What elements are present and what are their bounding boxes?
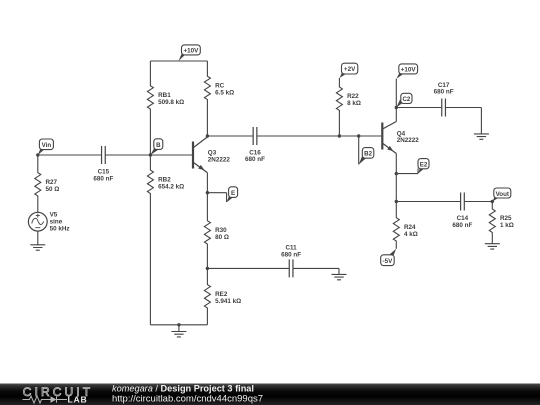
- wire E2 rail to C14: [396, 201, 460, 203]
- wire collector rail: [207, 135, 253, 137]
- capacitor C15: [102, 146, 106, 164]
- resistor RB1: [147, 61, 153, 155]
- node flag Vout: [492, 188, 511, 202]
- svg-text:C11: C11: [285, 245, 297, 252]
- svg-text:B2: B2: [364, 151, 372, 158]
- svg-text:2N2222: 2N2222: [397, 137, 420, 144]
- svg-text:680 nF: 680 nF: [93, 175, 113, 182]
- capacitor C11: [289, 259, 293, 277]
- ground below V5: [30, 245, 45, 250]
- power flag +10V right: [396, 64, 417, 79]
- wire C15 to Q3 base: [105, 154, 192, 156]
- node flag E2: [418, 159, 429, 174]
- capacitor C16: [253, 127, 257, 145]
- resistor R24: [393, 202, 399, 249]
- svg-text:V5: V5: [50, 212, 58, 219]
- svg-text:8 kΩ: 8 kΩ: [347, 100, 361, 107]
- svg-text:R30: R30: [215, 227, 227, 234]
- power flag +10V left: [179, 45, 201, 61]
- transistor Q3: [193, 137, 207, 173]
- ground right of C17: [474, 134, 489, 139]
- voltage source V5: [28, 212, 47, 231]
- svg-text:B: B: [156, 142, 161, 149]
- svg-text:Q3: Q3: [208, 149, 217, 156]
- svg-text:80 Ω: 80 Ω: [215, 234, 229, 241]
- resistor R30: [204, 193, 210, 269]
- wire C16 to Q4 base: [257, 135, 381, 137]
- svg-text:R25: R25: [500, 215, 512, 222]
- wire E2 stub: [396, 169, 418, 174]
- wire E stub: [207, 193, 226, 202]
- svg-text:E: E: [231, 190, 235, 197]
- power flag +2V: [339, 63, 357, 78]
- wire C17 to ground: [445, 108, 481, 134]
- ground below R25: [485, 244, 500, 249]
- ground bottom rail: [171, 325, 186, 337]
- logo waveform: [23, 396, 68, 403]
- svg-text:680 nF: 680 nF: [245, 156, 265, 163]
- svg-text:509.8 kΩ: 509.8 kΩ: [158, 99, 184, 106]
- wire C2 to C17: [396, 107, 441, 109]
- svg-text:RB1: RB1: [158, 92, 171, 99]
- svg-text:50 Ω: 50 Ω: [46, 186, 60, 193]
- svg-text:1 kΩ: 1 kΩ: [500, 222, 514, 229]
- wire Q4 emitter down: [395, 154, 397, 202]
- node flag E: [227, 187, 238, 202]
- svg-text:LAB: LAB: [68, 395, 88, 405]
- svg-text:-5V: -5V: [382, 258, 393, 265]
- svg-text:Vin: Vin: [42, 142, 52, 149]
- svg-text:R27: R27: [46, 179, 58, 186]
- node flag C2: [396, 93, 412, 107]
- resistor RC: [204, 61, 210, 136]
- capacitor C14: [461, 193, 465, 211]
- svg-text:RC: RC: [215, 82, 225, 89]
- node flag B: [150, 139, 162, 155]
- wire B2 drop: [358, 136, 360, 165]
- svg-text:+2V: +2V: [344, 66, 356, 73]
- wire C11 to ground: [293, 268, 339, 274]
- svg-text:komegara / Design Project 3 fi: komegara / Design Project 3 final: [112, 384, 254, 394]
- ground right of C11: [332, 274, 347, 279]
- wire top rail: [150, 60, 207, 62]
- wire +10V to C2 node: [395, 79, 397, 122]
- svg-text:R22: R22: [347, 93, 359, 100]
- node flag Vin: [38, 139, 54, 155]
- resistor R25: [489, 202, 495, 244]
- svg-text:RB2: RB2: [158, 176, 171, 183]
- svg-text:2N2222: 2N2222: [208, 157, 231, 164]
- resistor R22: [336, 78, 342, 136]
- svg-text:C2: C2: [402, 96, 410, 103]
- svg-text:RE2: RE2: [215, 291, 228, 298]
- svg-text:C14: C14: [457, 215, 469, 222]
- transistor Q4: [382, 122, 396, 154]
- svg-text:50 kHz: 50 kHz: [50, 226, 70, 233]
- svg-text:6.5 kΩ: 6.5 kΩ: [215, 89, 234, 96]
- capacitor C17: [442, 99, 446, 117]
- svg-text:Vout: Vout: [496, 191, 509, 198]
- resistor R27: [35, 155, 41, 212]
- svg-text:680 nF: 680 nF: [452, 222, 472, 229]
- svg-text:sine: sine: [50, 219, 63, 226]
- svg-text:654.2 kΩ: 654.2 kΩ: [158, 183, 184, 190]
- svg-text:+10V: +10V: [183, 48, 199, 55]
- wire Vin to C15: [38, 154, 102, 156]
- svg-text:+10V: +10V: [401, 67, 417, 74]
- wire V5 to ground: [37, 231, 39, 245]
- wire C14 to Vout: [464, 201, 492, 203]
- svg-text:R24: R24: [404, 224, 416, 231]
- wire E node to C11: [207, 267, 289, 269]
- wire bottom rail: [150, 324, 207, 326]
- svg-text:680 nF: 680 nF: [281, 252, 301, 259]
- svg-text:680 nF: 680 nF: [434, 89, 454, 96]
- svg-text:E2: E2: [420, 161, 428, 168]
- svg-text:http://circuitlab.com/cndv44cn: http://circuitlab.com/cndv44cn99qs7: [112, 394, 263, 405]
- svg-text:5.941 kΩ: 5.941 kΩ: [215, 298, 241, 305]
- resistor RB2: [147, 155, 153, 325]
- resistor RE2: [204, 268, 210, 324]
- svg-text:4 kΩ: 4 kΩ: [404, 231, 418, 238]
- wire Q3 emitter down: [206, 173, 208, 193]
- footer bar: [0, 384, 540, 405]
- node flag B2: [359, 148, 374, 165]
- power flag -5V: [381, 249, 397, 266]
